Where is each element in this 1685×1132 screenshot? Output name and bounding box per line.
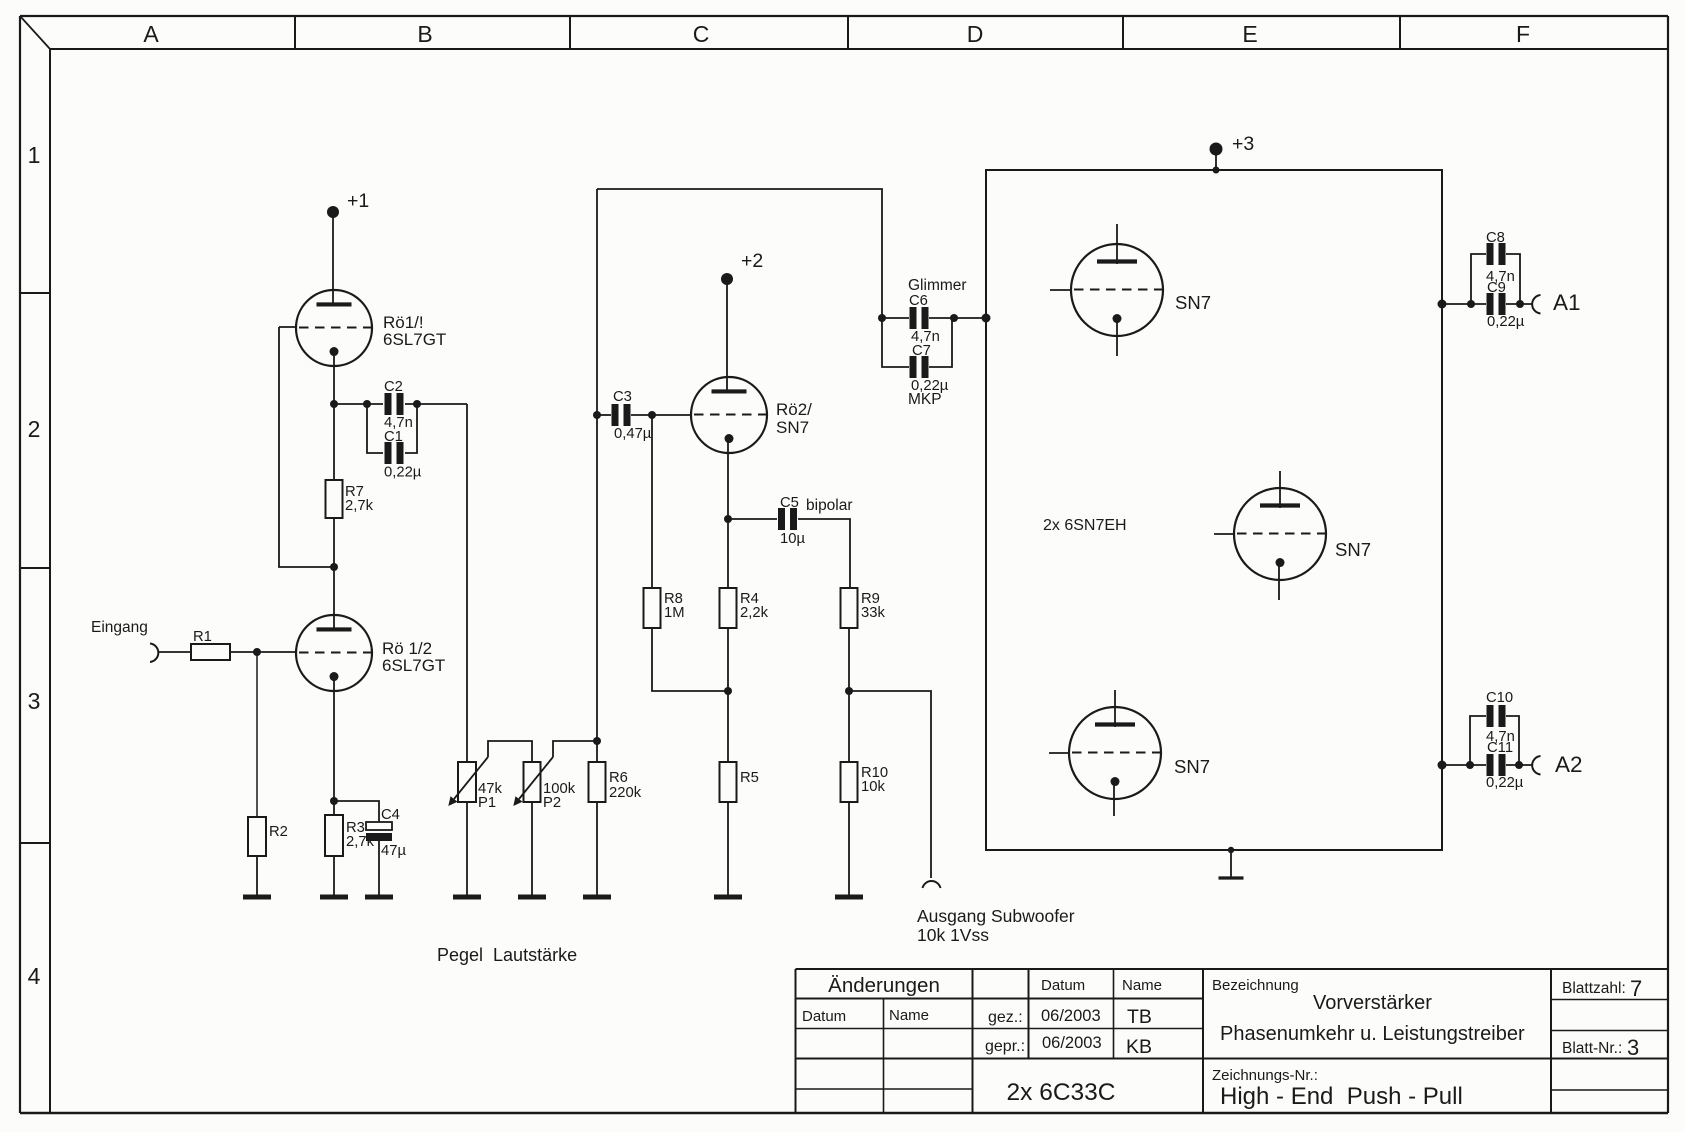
capacitor C3 0,47u	[612, 389, 652, 442]
svg-text:2x 6C33C: 2x 6C33C	[1007, 1079, 1116, 1106]
row label 4	[28, 963, 41, 989]
title text Name header	[1122, 977, 1162, 994]
svg-text:Änderungen: Änderungen	[828, 974, 940, 997]
wire R6 riser	[596, 189, 598, 762]
wire feedback grid Roe1	[279, 327, 334, 567]
node cathode junction Roe1/2	[330, 797, 338, 805]
resistor R3 2,7k	[325, 815, 375, 856]
capacitor C5 10u bipolar	[778, 495, 853, 547]
node A2 box junction	[1438, 761, 1447, 770]
svg-text:bipolar: bipolar	[806, 497, 853, 514]
wire box to C9	[1442, 300, 1486, 308]
capacitor C2 4,7n	[384, 379, 413, 431]
node +1 supply	[327, 190, 369, 218]
title text High-End Push-Pull	[1220, 1083, 1463, 1110]
node wiper R6 junction	[593, 737, 601, 745]
svg-text:C8: C8	[1486, 230, 1505, 246]
wire down to P1	[466, 404, 468, 762]
svg-text:A2: A2	[1555, 752, 1583, 777]
resistor R4 2,2k	[720, 588, 769, 628]
title text gez date	[1041, 1007, 1101, 1025]
svg-text:C5: C5	[780, 495, 799, 511]
output jack A2	[1532, 752, 1582, 777]
column label A	[143, 21, 159, 47]
subwoofer output jack	[923, 881, 941, 888]
node R9 bottom junction	[845, 687, 853, 695]
node C6 left junction	[878, 314, 886, 322]
node C5 junction	[724, 515, 732, 523]
box 2x 6SN7EH	[986, 170, 1442, 850]
wire subwoofer output	[849, 691, 931, 878]
ground under R5	[714, 895, 742, 900]
wire box to ground	[1230, 850, 1232, 878]
title text Aenderungen	[828, 974, 940, 997]
capacitor C9 0,22u	[1487, 280, 1525, 330]
resistor R10 10k	[841, 762, 889, 802]
resistor R1	[191, 629, 230, 660]
svg-text:MKP: MKP	[908, 391, 942, 408]
svg-text:47µ: 47µ	[381, 843, 406, 859]
wire to C3	[597, 414, 611, 416]
row label 3	[28, 688, 41, 714]
triode Roe 1/2 6SL7GT lower	[296, 615, 445, 691]
svg-text:Name: Name	[1122, 977, 1162, 994]
svg-text:gez.:: gez.:	[988, 1009, 1023, 1026]
wire +2 to Roe2 plate	[726, 279, 728, 392]
svg-text:P2: P2	[543, 795, 561, 811]
svg-text:Vorverstärker: Vorverstärker	[1313, 992, 1432, 1014]
wire node to C2	[334, 400, 383, 408]
triode Roe1/! 6SL7GT upper	[296, 290, 446, 366]
column label D	[967, 21, 984, 47]
wire C5 to R9	[798, 519, 850, 588]
svg-text:220k: 220k	[609, 785, 642, 801]
resistor R2	[248, 817, 288, 856]
svg-text:Bezeichnung: Bezeichnung	[1212, 977, 1299, 994]
svg-text:2,7k: 2,7k	[345, 498, 374, 514]
svg-text:P1: P1	[478, 795, 496, 811]
wire to C4	[334, 801, 379, 822]
wire Roe1/2 cathode down	[333, 676, 335, 815]
svg-text:C7: C7	[912, 343, 931, 359]
svg-text:4,7n: 4,7n	[1486, 729, 1515, 745]
column label E	[1242, 21, 1257, 47]
svg-text:R2: R2	[269, 824, 288, 840]
capacitor C7 0,22u MKP loop	[882, 318, 952, 408]
svg-text:B: B	[417, 21, 432, 47]
wire P1 to ground	[466, 802, 468, 897]
svg-text:R5: R5	[740, 770, 759, 786]
node +2 supply	[721, 250, 763, 285]
wire node to R7	[333, 404, 335, 480]
wire +1 to Roe1 plate	[332, 212, 334, 304]
title text Datum header	[1041, 977, 1085, 994]
wire R4 to R5	[727, 628, 729, 762]
wire C2 to corner	[405, 400, 467, 408]
title text Blatt-Nr	[1562, 1035, 1639, 1060]
capacitor C10 4,7n loop	[1470, 690, 1519, 765]
wire R8 to R4 node	[652, 628, 728, 691]
ground under box	[1219, 876, 1244, 879]
svg-text:SN7: SN7	[1174, 756, 1210, 777]
svg-text:D: D	[967, 21, 984, 47]
title text Name	[889, 1007, 929, 1024]
svg-text:2,2k: 2,2k	[740, 605, 769, 621]
wire Roe1 grid lead left	[279, 326, 296, 328]
svg-text:R1: R1	[193, 629, 212, 645]
node cathode Roe1 junction	[330, 400, 338, 408]
node R7 bottom junction	[330, 563, 338, 571]
wire C4 to ground	[378, 841, 380, 897]
node R8 junction	[648, 411, 656, 419]
svg-text:6SL7GT: 6SL7GT	[382, 656, 445, 675]
capacitor C11 0,22u	[1486, 740, 1524, 791]
wire box to C11	[1442, 761, 1486, 769]
svg-text:4,7n: 4,7n	[1486, 269, 1515, 285]
ground under R3	[320, 895, 348, 900]
svg-text:Blattzahl:: Blattzahl:	[1562, 980, 1626, 997]
svg-text:Glimmer: Glimmer	[908, 277, 967, 294]
title block grid	[796, 969, 1668, 1113]
svg-text:R6: R6	[609, 770, 628, 786]
svg-text:Name: Name	[889, 1007, 929, 1024]
svg-text:Pegel Lautstärke: Pegel Lautstärke	[437, 945, 577, 965]
wire junction down to R2	[256, 652, 258, 817]
svg-text:10k 1Vss: 10k 1Vss	[917, 925, 989, 945]
resistor R7 2,7k	[326, 480, 374, 518]
title text gez	[988, 1009, 1023, 1026]
wire P1 wiper to P2 top	[488, 741, 532, 762]
title text 2x 6C33C	[1007, 1079, 1116, 1106]
wire R10 to ground	[848, 802, 850, 897]
ground under R10	[835, 895, 863, 900]
svg-text:SN7: SN7	[1175, 292, 1211, 313]
svg-text:A: A	[143, 21, 159, 47]
potentiometer P2 100k	[513, 757, 575, 811]
wire junction to Roe1/2 plate	[333, 567, 335, 630]
title text Phasenumkehr	[1220, 1023, 1525, 1045]
capacitor C4 47u electrolytic	[366, 807, 406, 859]
node box grid input	[982, 314, 991, 323]
svg-text:33k: 33k	[861, 605, 885, 621]
wire C3 to Roe2 grid	[631, 414, 691, 416]
svg-text:A1: A1	[1553, 290, 1581, 315]
ground under P1	[453, 895, 481, 900]
svg-text:2x 6SN7EH: 2x 6SN7EH	[1043, 517, 1127, 534]
title text Datum	[802, 1008, 846, 1025]
wire jack to R1	[158, 651, 191, 653]
resistor R9 33k	[841, 588, 886, 628]
node +3 supply	[1210, 133, 1255, 156]
svg-text:Rö2/: Rö2/	[776, 400, 812, 419]
svg-text:10k: 10k	[861, 779, 885, 795]
wire R3 to ground	[333, 856, 335, 897]
label Pegel Lautstaerke	[437, 945, 577, 965]
svg-text:06/2003: 06/2003	[1042, 1034, 1102, 1052]
node A1 box junction	[1438, 300, 1447, 309]
capacitor C6 4,7n Glimmer	[908, 277, 967, 345]
column label C	[693, 21, 710, 47]
potentiometer P1 47k	[448, 757, 502, 811]
svg-text:Zeichnungs-Nr.:: Zeichnungs-Nr.:	[1212, 1067, 1318, 1084]
capacitor C1 0,22u loop	[367, 404, 422, 481]
wire R8 drop	[651, 415, 653, 588]
svg-text:C10: C10	[1486, 690, 1513, 706]
svg-text:C2: C2	[384, 379, 403, 395]
wire to C6	[882, 317, 909, 319]
wire C9 to jack A1	[1506, 300, 1532, 308]
resistor R8 1M	[644, 588, 685, 628]
svg-text:C6: C6	[909, 293, 928, 309]
svg-text:High - End Push - Pull: High - End Push - Pull	[1220, 1083, 1463, 1110]
svg-text:TB: TB	[1127, 1006, 1152, 1028]
triode Roe2 SN7	[691, 377, 812, 453]
svg-text:E: E	[1242, 21, 1257, 47]
title text Blattzahl	[1562, 976, 1642, 1001]
svg-text:gepr.:: gepr.:	[985, 1038, 1025, 1055]
svg-text:3: 3	[1627, 1035, 1639, 1060]
wire P2 wiper to R6 node	[553, 741, 597, 757]
svg-text:Eingang: Eingang	[91, 619, 148, 636]
node box bottom ground junction	[1228, 847, 1234, 853]
wire P2 to ground	[531, 802, 533, 897]
svg-text:3: 3	[28, 688, 41, 714]
wire R2 to ground	[256, 856, 258, 897]
column label B	[417, 21, 432, 47]
wire R6 to ground	[596, 802, 598, 897]
wire top link to glimmer	[597, 189, 882, 318]
title text KB	[1126, 1036, 1152, 1058]
svg-text:C: C	[693, 21, 710, 47]
wire R7 to junction	[333, 518, 335, 567]
svg-text:C3: C3	[613, 389, 632, 405]
output jack A1	[1532, 290, 1580, 315]
svg-text:SN7: SN7	[1335, 539, 1371, 560]
wire Roe1 cathode down to node	[333, 351, 335, 404]
wire Roe2 cathode down	[727, 438, 729, 588]
ground under R6	[583, 895, 611, 900]
svg-text:+2: +2	[741, 250, 763, 272]
svg-text:Ausgang Subwoofer: Ausgang Subwoofer	[917, 906, 1075, 926]
svg-text:F: F	[1516, 21, 1530, 47]
wire R5 to ground	[727, 802, 729, 897]
svg-text:+1: +1	[347, 190, 369, 212]
wire cathode to C5	[728, 518, 777, 520]
label Ausgang Subwoofer	[917, 906, 1075, 945]
svg-text:Datum: Datum	[1041, 977, 1085, 994]
title text TB	[1127, 1006, 1152, 1028]
ground under P2	[518, 895, 546, 900]
ground under C4	[365, 895, 393, 900]
svg-text:KB: KB	[1126, 1036, 1152, 1058]
input jack	[150, 644, 158, 663]
column label F	[1516, 21, 1530, 47]
svg-text:7: 7	[1630, 976, 1642, 1001]
triode SN7 second	[1214, 471, 1371, 600]
svg-text:SN7: SN7	[776, 418, 809, 437]
capacitor C8 4,7n loop	[1471, 230, 1520, 304]
svg-text:6SL7GT: 6SL7GT	[383, 330, 446, 349]
row label 1	[28, 142, 41, 168]
title text gepr	[985, 1038, 1025, 1055]
row label 2	[28, 416, 41, 442]
node R4 bottom junction	[724, 687, 732, 695]
ground under R2	[243, 895, 271, 900]
resistor R5	[720, 762, 759, 802]
wire R1 to Roe1/2 grid	[230, 651, 296, 653]
node input junction	[253, 648, 261, 656]
svg-text:0,22µ: 0,22µ	[1486, 775, 1524, 791]
svg-text:C1: C1	[384, 429, 403, 445]
svg-text:4: 4	[28, 963, 41, 989]
svg-text:C4: C4	[381, 807, 400, 823]
svg-text:0,47µ: 0,47µ	[614, 426, 652, 442]
svg-text:2: 2	[28, 416, 41, 442]
svg-text:1M: 1M	[664, 605, 685, 621]
svg-text:+3: +3	[1232, 133, 1254, 155]
wire +3 to box	[1213, 149, 1220, 174]
title text Vorverstaerker	[1313, 992, 1432, 1014]
svg-text:06/2003: 06/2003	[1041, 1007, 1101, 1025]
title text Bezeichnung	[1212, 977, 1299, 994]
svg-text:Datum: Datum	[802, 1008, 846, 1025]
resistor R6 220k	[589, 762, 642, 802]
wire C11 to jack A2	[1506, 761, 1532, 769]
node C3 left junction	[593, 411, 601, 419]
svg-text:1: 1	[28, 142, 41, 168]
wire C6 to box	[929, 314, 986, 322]
svg-text:0,22µ: 0,22µ	[1487, 314, 1525, 330]
title text Zeichnungs-Nr	[1212, 1067, 1318, 1084]
svg-text:Phasenumkehr u. Leistungstreib: Phasenumkehr u. Leistungstreiber	[1220, 1023, 1525, 1045]
svg-text:Blatt-Nr.:: Blatt-Nr.:	[1562, 1040, 1622, 1057]
svg-text:10µ: 10µ	[780, 531, 805, 547]
label Eingang	[91, 619, 148, 636]
svg-text:0,22µ: 0,22µ	[384, 465, 422, 481]
title text gepr date	[1042, 1034, 1102, 1052]
triode SN7 third	[1049, 690, 1210, 816]
wire R9 to R10	[848, 628, 850, 762]
triode SN7 first	[1050, 224, 1211, 356]
